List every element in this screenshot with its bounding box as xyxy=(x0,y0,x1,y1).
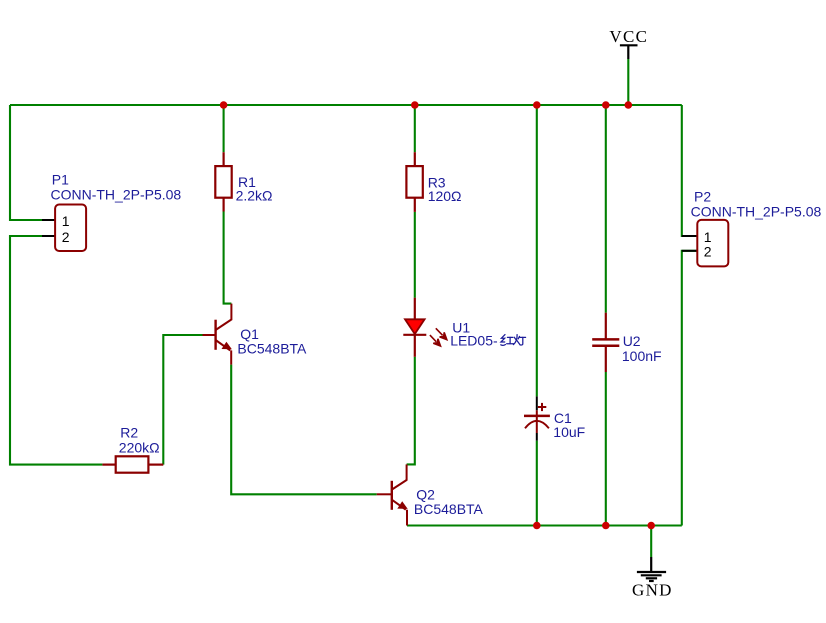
wire left vertical to P1 pin 1 xyxy=(10,105,42,220)
svg-text:BC548BTA: BC548BTA xyxy=(237,341,307,357)
wire rail to R1 xyxy=(223,105,225,152)
svg-text:CONN-TH_2P-P5.08: CONN-TH_2P-P5.08 xyxy=(51,187,182,203)
svg-text:220kΩ: 220kΩ xyxy=(119,439,160,455)
svg-text:U2: U2 xyxy=(623,333,641,349)
svg-text:CONN-TH_2P-P5.08: CONN-TH_2P-P5.08 xyxy=(691,204,822,220)
wire rail down to U2 xyxy=(605,105,607,313)
wire rail down to C1 xyxy=(536,105,538,396)
wire bottom rail to GND symbol xyxy=(650,526,652,558)
wire C1 to bottom rail xyxy=(536,441,538,526)
capacitor U2 xyxy=(592,313,661,372)
resistor R3 xyxy=(406,152,461,212)
junction top rail / R3 xyxy=(411,101,419,109)
wire VCC symbol stem xyxy=(627,59,629,105)
wire bottom rail GND xyxy=(407,524,682,526)
resistor R2 xyxy=(102,424,163,472)
svg-text:P2: P2 xyxy=(694,189,711,205)
junction bottom rail / GND xyxy=(647,522,655,530)
wire P1 pin 2 down left side to R2 xyxy=(10,236,102,465)
svg-text:BC548BTA: BC548BTA xyxy=(414,501,484,517)
svg-text:R2: R2 xyxy=(120,424,138,440)
svg-text:120Ω: 120Ω xyxy=(428,188,462,204)
wire R2 right up to Q1 base xyxy=(163,335,202,465)
svg-text:1: 1 xyxy=(62,213,70,229)
junction top rail / R1 xyxy=(220,101,228,109)
svg-text:2: 2 xyxy=(704,244,712,260)
svg-text:10uF: 10uF xyxy=(553,424,585,440)
wire P2 pin 2 down to bottom rail xyxy=(682,251,698,526)
glyph 红 xyxy=(501,335,514,346)
svg-text:LED05-: LED05- xyxy=(450,333,498,349)
junction top rail / U2 xyxy=(602,101,610,109)
glyph 灯 xyxy=(513,335,525,345)
power VCC xyxy=(609,27,648,59)
LED U1 xyxy=(403,298,525,357)
wire rail to R3 xyxy=(414,105,416,152)
transistor Q2 xyxy=(377,464,484,525)
transistor Q1 xyxy=(203,304,308,365)
svg-text:Q2: Q2 xyxy=(416,486,435,502)
wire R1 to Q1 collector xyxy=(224,212,232,304)
svg-text:VCC: VCC xyxy=(609,27,648,46)
wire LED cathode down to Q2 collector xyxy=(407,357,415,465)
capacitor C1 xyxy=(524,396,585,440)
svg-text:100nF: 100nF xyxy=(622,348,662,364)
ground GND xyxy=(632,557,673,600)
svg-text:P1: P1 xyxy=(52,172,69,188)
svg-text:GND: GND xyxy=(632,581,673,600)
wire R3 to LED anode xyxy=(414,212,416,298)
wire Q1 emitter down and right to Q2 base xyxy=(231,365,377,495)
wire right vertical rail to P2 pin 1 xyxy=(682,105,698,236)
svg-text:1: 1 xyxy=(704,229,712,245)
resistor R1 xyxy=(215,152,272,211)
wire top rail VCC xyxy=(10,104,682,106)
junction bottom rail / C1 xyxy=(533,522,541,530)
junction bottom rail / U2 xyxy=(602,522,610,530)
connector P2 xyxy=(682,189,822,267)
svg-text:2.2kΩ: 2.2kΩ xyxy=(236,188,273,204)
junction top rail / C1 xyxy=(533,101,541,109)
wire U2 to bottom rail xyxy=(605,372,607,526)
connector P1 xyxy=(42,172,181,251)
svg-text:2: 2 xyxy=(62,229,70,245)
junction top rail / VCC xyxy=(625,101,633,109)
